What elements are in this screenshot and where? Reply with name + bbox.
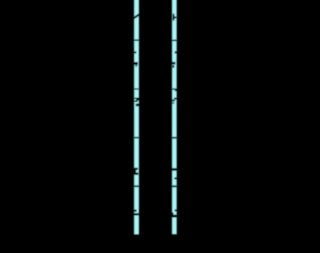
gap row 3 xyxy=(132,137,141,139)
gap row 2 xyxy=(132,88,141,89)
gap row 1 xyxy=(132,39,141,41)
k mark right spike xyxy=(174,16,178,19)
gap row 4 xyxy=(170,185,179,187)
gap row 2 xyxy=(170,88,179,89)
right notch mark lower xyxy=(174,177,177,179)
left beam xyxy=(132,0,141,235)
lower full band xyxy=(172,215,177,218)
gap row 1 xyxy=(170,40,179,42)
bracket mark bar A xyxy=(134,168,138,170)
Z mark bottom bar xyxy=(134,100,138,102)
cross blob mark xyxy=(134,62,138,65)
right notch under gap xyxy=(175,90,177,92)
gap row 3 xyxy=(170,137,179,139)
gap row 4 xyxy=(132,185,141,187)
left notch mark xyxy=(134,51,137,53)
band and tail mark xyxy=(172,62,176,65)
lower right notch xyxy=(175,209,177,211)
bracket mark bar B xyxy=(134,173,139,175)
lower left notch xyxy=(172,212,174,214)
wedge and blob mark xyxy=(174,98,177,100)
right beam xyxy=(170,0,179,234)
lower left notch mark xyxy=(134,210,137,212)
slash cut mark xyxy=(134,13,140,20)
right blob mark xyxy=(136,104,140,107)
full band mark xyxy=(172,168,177,171)
lower band mark xyxy=(134,213,139,215)
bracket mark left strip xyxy=(134,170,136,173)
k mark vertical bar xyxy=(173,14,175,21)
Z mark diagonal xyxy=(136,99,139,100)
right notch mark xyxy=(175,51,177,53)
Z mark top bar xyxy=(134,98,139,99)
